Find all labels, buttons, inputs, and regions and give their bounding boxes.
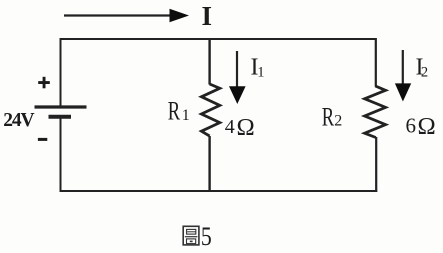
battery plus sign <box>38 77 50 89</box>
resistor R2 <box>365 86 386 138</box>
current arrow I (top) <box>64 9 189 23</box>
svg-text:6: 6 <box>406 114 417 138</box>
label 4 ohm <box>225 114 255 141</box>
svg-text:R: R <box>168 96 181 125</box>
svg-text:I: I <box>202 1 213 31</box>
wire left lower <box>60 117 62 192</box>
current arrow I1 <box>229 51 246 104</box>
label I1 <box>251 55 265 81</box>
svg-text:Ω: Ω <box>418 113 436 140</box>
svg-text:5: 5 <box>201 222 212 252</box>
svg-text:R: R <box>322 102 335 131</box>
wire top <box>61 38 376 40</box>
wire left upper <box>60 38 62 107</box>
wire right lower lead <box>375 137 377 192</box>
caption figure 5 : hand-drawn CJK glyph "tu" (figure) <box>183 226 199 245</box>
current arrow I2 <box>395 50 411 102</box>
wire bottom <box>60 190 378 192</box>
wire right upper lead <box>375 38 377 87</box>
battery 24V <box>35 107 87 117</box>
svg-text:24V: 24V <box>3 110 34 131</box>
label R1 <box>168 96 190 125</box>
resistor R1 <box>201 84 219 136</box>
wire middle branch lower lead <box>208 136 210 192</box>
svg-text:2: 2 <box>334 113 342 130</box>
svg-text:4: 4 <box>225 116 235 138</box>
label I2 <box>416 55 429 81</box>
svg-text:2: 2 <box>421 65 428 81</box>
svg-text:Ω: Ω <box>237 114 255 141</box>
svg-text:1: 1 <box>182 107 190 124</box>
wire middle branch upper lead <box>208 38 210 85</box>
svg-text:1: 1 <box>257 65 264 81</box>
label 6 ohm <box>406 113 436 140</box>
battery minus sign <box>38 138 47 141</box>
label R2 <box>322 102 342 131</box>
